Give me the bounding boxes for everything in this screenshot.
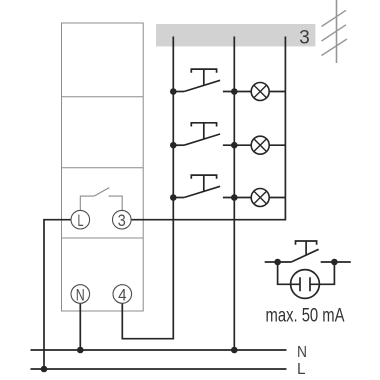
wire E3 to return line — [269, 197, 285, 199]
wire from terminal L to L bus — [44, 220, 71, 369]
push-button S2 — [173, 144, 184, 146]
svg-text:L: L — [78, 211, 84, 230]
wire S2 to node — [223, 144, 251, 146]
terminal 3 — [113, 210, 132, 229]
neutral line (middle vertical) — [233, 37, 235, 351]
junction dot row3 middle — [231, 194, 238, 201]
junction dot row1 middle — [231, 88, 238, 95]
lamp E1 — [251, 83, 269, 101]
cable slash mark 3 — [322, 39, 348, 56]
push-button S1 — [173, 91, 184, 93]
device divider 2 — [62, 167, 144, 169]
junction dot row1 left — [170, 88, 177, 95]
glow lamp circle — [291, 270, 320, 299]
ceiling junction box (grey bar) — [156, 24, 315, 46]
junction dot detail right — [331, 259, 338, 266]
wire E1 to return line — [269, 91, 285, 93]
junction dot row2 left — [170, 142, 177, 149]
svg-text:N: N — [297, 344, 307, 361]
junction dot L-wire on L bus — [41, 366, 48, 373]
push-button S2 with lamp E2 (row 2) — [173, 123, 285, 154]
terminal L — [71, 210, 90, 229]
wire S1 to node — [223, 91, 251, 93]
svg-text:max. 50 mA: max. 50 mA — [266, 305, 345, 326]
terminal N — [71, 285, 90, 304]
wire S3 to node — [223, 197, 251, 199]
L bus — [31, 368, 287, 370]
lamp E3 — [251, 189, 269, 207]
cable run symbol (vertical) — [336, 0, 338, 63]
wire E2 to return line — [269, 144, 285, 146]
push-button supply line (left vertical) to terminal 4 — [122, 37, 173, 339]
junction dot N-wire on N bus — [77, 347, 84, 354]
wire from terminal N to N bus — [79, 303, 81, 350]
svg-text:3: 3 — [118, 211, 126, 230]
junction dot row2 middle — [231, 142, 238, 149]
detail branch left — [278, 262, 291, 284]
detail branch right — [319, 262, 334, 284]
device divider 3 — [62, 237, 144, 239]
push-button S3 — [173, 197, 184, 199]
illuminated push-button detail (max 50 mA) — [265, 241, 351, 298]
junction dot middle line on N bus — [231, 347, 238, 354]
detail wire right — [321, 261, 351, 263]
internal relay contact between L and 3 — [80, 188, 122, 211]
push-button S3 with lamp E3 (row 3) — [173, 175, 285, 206]
junction dot row3 left — [170, 194, 177, 201]
push-button S1 with lamp E1 (row 1) — [173, 69, 285, 100]
svg-text:3: 3 — [299, 26, 310, 48]
terminal 4 — [113, 285, 132, 304]
lamp E2 — [251, 136, 269, 154]
N bus — [31, 349, 287, 351]
glow lamp electrodes — [291, 283, 320, 285]
device divider 1 — [62, 96, 144, 98]
svg-text:4: 4 — [118, 285, 127, 304]
svg-text:N: N — [76, 285, 85, 304]
timer device outline — [62, 23, 144, 311]
detail wire left — [265, 261, 292, 263]
detail actuator — [296, 241, 317, 245]
svg-text:L: L — [297, 361, 306, 378]
wire from terminal 3 and lamp return line (right vertical) — [131, 37, 285, 220]
junction dot detail left — [274, 259, 281, 266]
cable slash mark 2 — [322, 25, 347, 41]
cable slash mark 1 — [322, 10, 347, 26]
detail push-button blade — [291, 249, 318, 262]
